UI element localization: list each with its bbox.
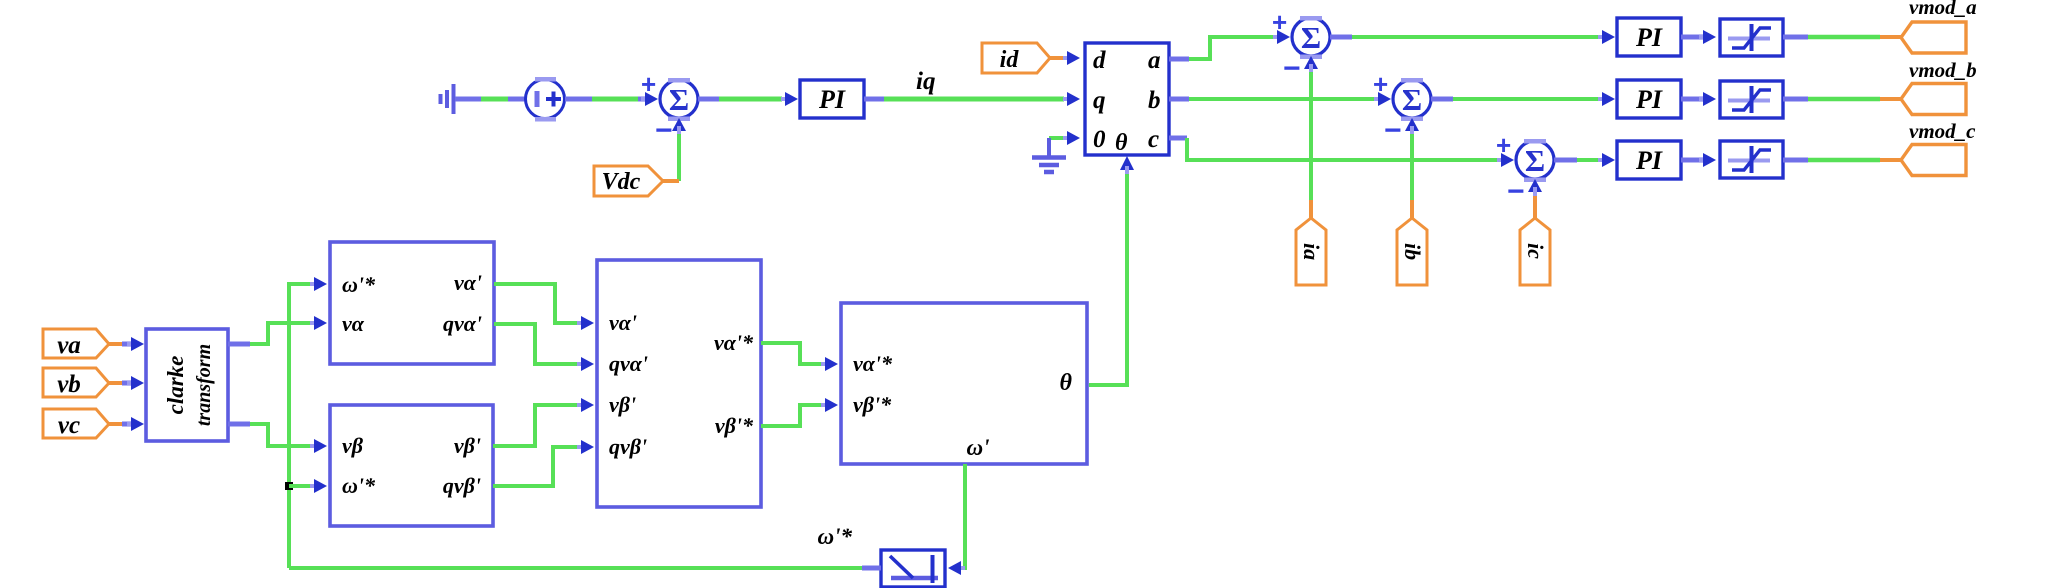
summer S4 xyxy=(1496,130,1554,208)
wire clarke beta out to SOGI B vbeta in xyxy=(228,422,250,427)
svg-text:ω'*: ω'* xyxy=(817,524,852,549)
wire PLL omega' out to filter F1 xyxy=(954,464,965,568)
input tab vc xyxy=(43,409,109,439)
svg-text:vα: vα xyxy=(342,311,365,336)
wire U5 valpha'* out to PLL xyxy=(761,343,828,364)
svg-text:ω': ω' xyxy=(966,435,989,460)
svg-text:+: + xyxy=(1373,69,1388,99)
wire S4 down to tab ic xyxy=(1533,196,1537,218)
PI controller PI1 xyxy=(800,80,864,118)
wire PI2 to limiter L1 xyxy=(1681,35,1703,40)
svg-text:q: q xyxy=(1093,87,1106,114)
svg-text:PI: PI xyxy=(1635,146,1663,175)
svg-text:Σ: Σ xyxy=(1525,143,1545,178)
svg-text:vmod_a: vmod_a xyxy=(1909,0,1977,19)
input tab id xyxy=(982,43,1050,73)
wire F1 out along bottom, net omega'* xyxy=(862,566,881,571)
wire S2 down to tab ia xyxy=(1309,72,1313,200)
wire junction to SOGI B omega'* in xyxy=(289,484,320,488)
wire PI4 to limiter L3 xyxy=(1681,158,1703,163)
wire b output to summer S3 xyxy=(1169,97,1189,102)
wire L3 to tab vmod_c xyxy=(1783,158,1808,163)
svg-text:clarke: clarke xyxy=(163,356,188,415)
svg-text:vα': vα' xyxy=(609,310,637,335)
summer S3 xyxy=(1373,69,1431,147)
svg-text:ω'*: ω'* xyxy=(342,272,376,297)
block U5 positive sequence calculator xyxy=(597,260,761,507)
PI controller PI2 xyxy=(1617,18,1681,56)
svg-text:0: 0 xyxy=(1093,126,1106,153)
svg-text:−: − xyxy=(655,114,673,147)
svg-text:θ: θ xyxy=(1115,130,1128,156)
output tab vmod_c xyxy=(1901,119,1976,176)
wire SOGI A valpha' out to U5 xyxy=(494,284,584,323)
svg-text:d: d xyxy=(1093,47,1106,74)
svg-text:vmod_c: vmod_c xyxy=(1909,119,1976,143)
svg-text:+: + xyxy=(1496,130,1511,160)
wire c output to summer S4 xyxy=(1169,136,1187,141)
svg-text:a: a xyxy=(1148,47,1161,74)
svg-text:vc: vc xyxy=(58,412,80,439)
svg-text:vα'*: vα'* xyxy=(853,351,893,376)
svg-text:vα': vα' xyxy=(454,270,482,295)
wire U5 vbeta'* out to PLL xyxy=(761,405,828,426)
wire SOGI B vbeta' out to U5 xyxy=(493,405,584,446)
wire Vdc to S1 minus input xyxy=(677,134,681,181)
wire S4 to PI4 xyxy=(1554,158,1577,163)
summer S1 xyxy=(641,69,698,147)
wire theta from PLL to U1 xyxy=(1120,156,1134,170)
svg-text:ω'*: ω'* xyxy=(342,473,376,498)
output tab vmod_b xyxy=(1901,58,1977,115)
wire PI3 to limiter L2 xyxy=(1681,97,1703,102)
svg-text:vα'*: vα'* xyxy=(714,330,754,355)
ground G2 at 0 input xyxy=(1032,131,1080,172)
svg-text:vβ'*: vβ'* xyxy=(853,392,892,417)
svg-text:vβ': vβ' xyxy=(609,392,636,417)
svg-text:−: − xyxy=(1384,114,1402,147)
svg-text:b: b xyxy=(1148,87,1161,114)
block U3 SOGI alpha xyxy=(330,242,494,364)
limiter L2 xyxy=(1720,81,1783,118)
svg-text:qvα': qvα' xyxy=(609,351,648,376)
wire source to sum S1 xyxy=(565,97,592,102)
wire omega'* feedback vertical xyxy=(289,284,320,568)
wire vb to clarke xyxy=(109,381,122,385)
filter F1 xyxy=(881,550,945,587)
limiter L1 xyxy=(1720,19,1783,56)
block U1 dq0-abc transform xyxy=(1085,43,1169,156)
wire ground to source V1 xyxy=(455,97,481,102)
input tab vb xyxy=(43,368,109,398)
summer S2 xyxy=(1272,7,1330,85)
wire SOGI A qvalpha' out to U5 xyxy=(494,324,584,364)
wire S2 to PI2 xyxy=(1330,35,1352,40)
wire clarke alpha out to SOGI A valpha in xyxy=(228,342,250,347)
svg-text:c: c xyxy=(1148,126,1159,153)
block U4 SOGI beta xyxy=(330,405,493,526)
wire id to d input xyxy=(1050,56,1067,60)
svg-text:vβ: vβ xyxy=(342,433,364,458)
block U6 PLL xyxy=(841,303,1087,464)
svg-text:−: − xyxy=(1507,175,1525,208)
wire vc to clarke xyxy=(109,422,122,426)
block U2 clarke transform xyxy=(146,329,228,441)
svg-text:PI: PI xyxy=(1635,85,1663,114)
svg-text:−: − xyxy=(1283,52,1301,85)
svg-text:qvβ': qvβ' xyxy=(609,434,647,459)
input tab ib xyxy=(1397,218,1427,285)
wire SOGI B qvbeta' out to U5 xyxy=(493,447,584,486)
svg-text:PI: PI xyxy=(818,85,846,114)
input tab ic xyxy=(1520,218,1550,285)
svg-text:Vdc: Vdc xyxy=(602,169,641,195)
ground G1 (rotated, left of source) xyxy=(441,84,454,114)
wire S3 to PI3 xyxy=(1431,97,1453,102)
svg-text:Σ: Σ xyxy=(669,82,689,117)
input tab Vdc xyxy=(594,166,663,196)
svg-text:vb: vb xyxy=(57,371,81,398)
junction omega'* node xyxy=(285,482,293,490)
wire S3 down to tab ib xyxy=(1410,134,1414,200)
svg-text:Σ: Σ xyxy=(1402,82,1422,117)
svg-text:Σ: Σ xyxy=(1301,20,1321,55)
svg-text:ic: ic xyxy=(1523,243,1548,259)
svg-text:+: + xyxy=(1272,7,1287,37)
svg-text:va: va xyxy=(57,332,81,359)
DC source V1 xyxy=(526,77,565,122)
wire S1 to PI1 xyxy=(698,97,719,102)
svg-text:id: id xyxy=(1000,47,1020,73)
wire va to clarke xyxy=(109,342,122,346)
svg-text:qvβ': qvβ' xyxy=(443,473,481,498)
svg-text:ib: ib xyxy=(1400,243,1425,260)
wire PI1 to q input, net iq xyxy=(864,97,884,102)
input tab ia xyxy=(1296,218,1326,285)
wire L2 to tab vmod_b xyxy=(1783,97,1808,102)
svg-text:θ: θ xyxy=(1060,370,1073,396)
svg-text:transform: transform xyxy=(193,344,215,426)
wire a output to summer S2 xyxy=(1169,57,1189,62)
limiter L3 xyxy=(1720,141,1783,178)
input tab va xyxy=(43,329,109,359)
PI controller PI3 xyxy=(1617,80,1681,118)
svg-text:iq: iq xyxy=(916,68,935,95)
svg-text:qvα': qvα' xyxy=(443,311,482,336)
svg-text:vβ': vβ' xyxy=(454,433,481,458)
output tab vmod_a xyxy=(1901,0,1977,53)
PI controller PI4 xyxy=(1617,141,1681,179)
svg-text:+: + xyxy=(641,69,656,99)
svg-text:vmod_b: vmod_b xyxy=(1909,58,1977,82)
wire L1 to tab vmod_a xyxy=(1783,35,1808,40)
svg-text:PI: PI xyxy=(1635,23,1663,52)
svg-text:vβ'*: vβ'* xyxy=(715,413,754,438)
svg-text:ia: ia xyxy=(1299,243,1324,260)
